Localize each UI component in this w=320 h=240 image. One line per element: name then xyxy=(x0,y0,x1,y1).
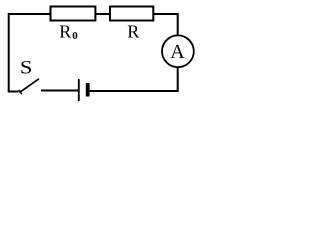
svg-text:R: R xyxy=(59,22,71,42)
svg-text:R: R xyxy=(127,22,139,42)
switch pivot tick xyxy=(19,90,22,95)
svg-text:S: S xyxy=(20,58,33,78)
wire between resistors xyxy=(95,13,110,15)
battery negative plate xyxy=(86,83,90,97)
wire battery to switch xyxy=(41,90,78,92)
resistor R0 xyxy=(51,7,96,21)
switch S blade xyxy=(19,79,39,93)
wire R to ammeter xyxy=(153,14,177,36)
svg-text:A: A xyxy=(170,41,185,63)
svg-text:0: 0 xyxy=(72,30,78,42)
wire ammeter to battery xyxy=(90,67,178,91)
resistor R xyxy=(110,7,153,21)
ammeter A xyxy=(162,35,194,67)
wire left and top-left segment xyxy=(9,14,51,92)
battery positive plate xyxy=(78,79,80,101)
